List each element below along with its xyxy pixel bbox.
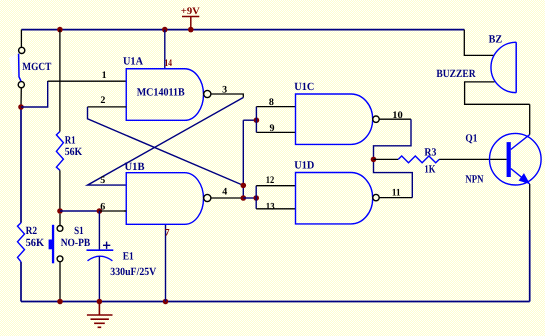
svg-text:1K: 1K: [424, 164, 435, 176]
wire emitter vertical to bottom rail: [529, 184, 531, 230]
svg-text:14: 14: [165, 58, 173, 69]
wire bottom ground rail: [21, 301, 530, 303]
nand gate U1B: [126, 173, 203, 225]
svg-text:10: 10: [392, 110, 403, 121]
wire R3 to Q1 base: [439, 158, 506, 160]
wire net pin4 to 8-9 tie: [243, 119, 256, 121]
wire net pin4 to 12-13 tie: [243, 197, 256, 199]
svg-text:E1: E1: [123, 251, 134, 263]
junction dot R3 node: [371, 157, 377, 163]
wire pin 13 stub: [256, 208, 295, 210]
wire net pin1: MGCT junction to U1A input 1: [21, 81, 48, 107]
U1C output bubble: [373, 116, 379, 122]
wire net pin2 cross-couple diagonal to pin4 node: [88, 107, 244, 185]
wire U1A pin2 stub: [88, 106, 127, 108]
U1B output bubble: [204, 194, 211, 201]
switch MGCT: [9, 47, 25, 87]
nand gate U1C: [296, 94, 373, 144]
svg-text:5: 5: [100, 175, 105, 186]
junction dot S1 bottom on rail: [57, 299, 63, 305]
wire U1A pin3 stub: [211, 94, 243, 98]
svg-text:7: 7: [165, 228, 170, 239]
svg-text:56K: 56K: [26, 237, 45, 249]
svg-text:MGCT: MGCT: [22, 61, 52, 73]
junction dot U1B pin7 on rail: [163, 299, 169, 305]
svg-text:+9V: +9V: [181, 6, 201, 17]
nand gate U1A (MC14011B): [126, 69, 203, 121]
junction dot U1A pin14 on rail: [162, 27, 168, 33]
wire MGCT bottom lead: [20, 88, 22, 107]
wire pin 8 stub: [256, 106, 295, 108]
transistor Q1: [490, 133, 542, 185]
resistor R2: [18, 223, 25, 262]
junction dot diag/vertical: [241, 183, 247, 189]
svg-text:11: 11: [392, 188, 401, 199]
svg-text:BZ: BZ: [489, 33, 503, 45]
svg-text:BUZZER: BUZZER: [436, 68, 476, 80]
wire net pin6 left part: [60, 210, 99, 212]
svg-text:U1C: U1C: [294, 81, 314, 93]
wire U1B pin4 stub: [211, 197, 244, 199]
junction dot 8-9 tie: [254, 117, 260, 123]
U1A output bubble: [204, 90, 211, 97]
wire R3 left stub: [374, 158, 399, 160]
junction dot +9V on rail: [188, 27, 194, 33]
svg-text:12: 12: [266, 175, 275, 186]
wire pin 11 stub: [379, 197, 412, 199]
power +9V symbol: [181, 6, 201, 30]
svg-text:9: 9: [270, 123, 275, 134]
wire R2 bottom to rail: [20, 262, 22, 302]
svg-text:MC14011B: MC14011B: [137, 87, 186, 99]
svg-text:1: 1: [102, 70, 107, 81]
svg-text:U1B: U1B: [125, 161, 146, 173]
svg-text:8: 8: [269, 97, 274, 108]
svg-text:U1D: U1D: [294, 160, 314, 172]
svg-text:R1: R1: [65, 135, 76, 147]
junction dot pin4/vertical: [241, 195, 247, 201]
junction dot R1/S1/pin6: [57, 208, 63, 214]
svg-text:56K: 56K: [65, 146, 83, 158]
wire R1 bottom lead: [59, 170, 61, 211]
wire pin 12 stub: [256, 185, 295, 187]
svg-text:2: 2: [100, 95, 105, 106]
wire 12-13 tie vertical: [255, 186, 257, 209]
wire pin 10 stub: [379, 118, 411, 120]
wire R1 feed vertical from rail: [59, 30, 61, 132]
buzzer BZ: [491, 42, 516, 92]
svg-text:NO-PB: NO-PB: [61, 237, 91, 249]
wire pin 9 stub: [256, 131, 295, 133]
junction dot 12-13 tie: [253, 195, 259, 201]
wire U1B pin 7 to ground rail: [165, 224, 167, 301]
wire U1B pin6 stub (already drawn as net pin6): [124, 210, 126, 212]
nand gate U1D: [296, 173, 373, 224]
wire top +9V rail: [21, 29, 464, 31]
svg-text:NPN: NPN: [465, 174, 483, 186]
wire net pin4 vertical: [242, 120, 244, 198]
junction dot E1 top: [97, 208, 103, 214]
svg-text:330uF/25V: 330uF/25V: [110, 266, 156, 278]
wire net pin6 right part to U1B: [99, 210, 126, 212]
U1D output bubble: [373, 194, 379, 200]
svg-text:6: 6: [100, 201, 105, 212]
wire net pin3 cross-couple diagonal to U1B pin5: [88, 98, 244, 186]
wire net pin11 routing up to R3 node: [374, 159, 413, 197]
wire MGCT top lead: [20, 30, 22, 48]
capacitor E1: [87, 211, 114, 302]
svg-text:S1: S1: [74, 225, 84, 237]
wire 8-9 tie vertical: [255, 107, 257, 133]
resistor R3: [398, 156, 439, 163]
svg-text:Q1: Q1: [465, 133, 477, 145]
wire buzzer top pin routing from rail: [464, 30, 494, 56]
junction dot E1/ground on rail: [97, 299, 103, 305]
wire buzzer bottom pin routing: [465, 82, 530, 104]
ground: [87, 302, 113, 328]
wire left column from MGCT junction down to R2: [20, 107, 22, 223]
svg-text:R3: R3: [424, 146, 436, 158]
svg-text:R2: R2: [26, 225, 38, 237]
svg-text:U1A: U1A: [123, 56, 143, 68]
junction dot R1 feed on rail: [57, 27, 63, 33]
resistor R1: [56, 132, 63, 171]
junction dot MGCT/left column: [18, 104, 24, 110]
svg-text:13: 13: [266, 201, 275, 212]
svg-text:4: 4: [222, 186, 227, 197]
wire net pin10 routing down to R3 node: [374, 119, 412, 159]
wire U1A pin 14 from rail: [164, 30, 166, 69]
wire collector vertical up to buzzer path: [529, 104, 531, 134]
switch S1: [49, 214, 63, 302]
